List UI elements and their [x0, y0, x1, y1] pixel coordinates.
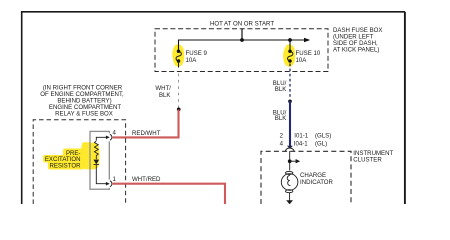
wire to lamp [289, 161, 291, 170]
diode [94, 160, 100, 165]
instrument cluster caption [353, 150, 393, 164]
pin 1 [106, 182, 110, 186]
svg-text:BLK: BLK [159, 92, 171, 99]
label BLU/BLK (upper) [273, 80, 287, 93]
engine compartment caption [40, 84, 124, 117]
highlight over fuse FUSE 9 [172, 44, 184, 66]
junction dot in cluster [288, 159, 292, 163]
svg-text:INDICATOR: INDICATOR [300, 179, 334, 186]
fuse FUSE 9 (10A) [176, 49, 181, 62]
svg-text:HOT AT ON OR START: HOT AT ON OR START [210, 21, 274, 28]
internal wire pin4 to resistor [96, 137, 106, 140]
wire WHT/RED [113, 184, 225, 205]
dash fuse box (dashed container) [155, 29, 328, 72]
splice dot (WHT/BLK to RED/WHT) [177, 108, 181, 112]
svg-text:AT KICK PANEL): AT KICK PANEL) [333, 46, 379, 53]
resistor (zigzag) [94, 141, 98, 160]
label WHT/BLK [155, 85, 171, 99]
pre-excitation resistor box [90, 131, 109, 189]
junction dot at feed [240, 38, 244, 42]
internal wire diode to pin1 [96, 165, 106, 184]
connector I04-1 pin 4 [280, 141, 328, 148]
charge indicator lamp [281, 171, 298, 192]
svg-text:(GLS): (GLS) [315, 133, 331, 140]
svg-text:BLK: BLK [275, 115, 287, 122]
wire BLU/BLK (dashed drop from fuse 10) [289, 61, 291, 63]
wire BLU/BLK (solid) [289, 101, 291, 147]
svg-text:10A: 10A [296, 57, 308, 64]
svg-text:RELAY & FUSE BOX: RELAY & FUSE BOX [55, 110, 113, 117]
svg-text:I01-1: I01-1 [294, 133, 309, 140]
svg-text:RED/WHT: RED/WHT [132, 130, 161, 137]
wire: bus across fuses [179, 40, 306, 51]
svg-text:CLUSTER: CLUSTER [353, 157, 382, 164]
svg-text:10A: 10A [186, 57, 198, 64]
label CHARGE INDICATOR [300, 172, 334, 186]
svg-text:RESISTOR: RESISTOR [49, 162, 81, 169]
arrow branch to right (in cluster) [290, 160, 297, 162]
engine compartment relay & fuse box (dashed) [33, 120, 125, 204]
junction dot at fuse 10 branch [288, 38, 292, 42]
highlight over fuse FUSE 10 [283, 44, 295, 66]
svg-text:BLK: BLK [275, 86, 287, 93]
arrow continuing off-page (down) [286, 200, 293, 204]
connector arrow into cluster (male/female symbol) [287, 146, 293, 149]
wire WHT/BLK (dashed drop from fuse 9) [178, 61, 180, 68]
dash fuse box caption [333, 27, 382, 54]
wire RED/WHT [113, 110, 179, 138]
pin 4 [106, 136, 110, 140]
fuse FUSE 10 value label [296, 50, 321, 64]
fuse FUSE 10 (10A) [288, 49, 293, 62]
wire below lamp [289, 193, 291, 201]
label PRE-EXCITATION RESISTOR [45, 150, 81, 169]
connector I01-1 pin 2 [280, 133, 332, 140]
svg-text:CHARGE: CHARGE [300, 172, 326, 179]
pre-excitation resistor highlight [43, 142, 100, 169]
label BLU/BLK (lower) [273, 109, 287, 122]
svg-text:WHT/RED: WHT/RED [132, 176, 161, 183]
instrument cluster box (dashed) [261, 151, 351, 204]
svg-text:(GL): (GL) [315, 141, 327, 148]
wire inside cluster (entry to junction) [289, 151, 291, 161]
arrow to other circuits (bus right end) [304, 38, 310, 42]
fuse FUSE 9 value label [186, 50, 208, 64]
wire: hot feed from label down to bus [241, 29, 243, 40]
svg-text:I04-1: I04-1 [294, 141, 309, 148]
splice dot on BLU/BLK [288, 99, 292, 103]
